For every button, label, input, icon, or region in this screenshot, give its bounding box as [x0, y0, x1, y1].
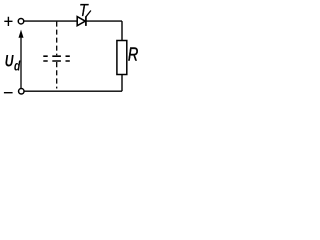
- plus polarity sign: [4, 17, 12, 26]
- svg-text:R: R: [128, 44, 138, 65]
- wire right vertical lower: [121, 75, 123, 92]
- minus polarity sign: [4, 92, 13, 94]
- svg-text:d: d: [14, 58, 21, 74]
- capacitor dashed vertical upper: [56, 22, 58, 56]
- svg-text:U: U: [5, 53, 14, 71]
- wire bottom horizontal: [24, 90, 122, 92]
- resistor R box: [117, 41, 127, 75]
- wire top horizontal: [24, 20, 122, 22]
- svg-text:T: T: [79, 0, 89, 20]
- thyristor T triangle: [77, 17, 85, 26]
- voltage arrow Ud shaft: [20, 38, 22, 89]
- voltage arrow Ud head: [19, 30, 24, 38]
- wire right vertical upper: [121, 21, 123, 40]
- capacitor bottom plate dashed: [43, 60, 70, 62]
- thyristor T cathode bar: [85, 16, 87, 26]
- top terminal node: [18, 18, 24, 24]
- bottom terminal node: [19, 89, 25, 95]
- thyristor T gate lead: [86, 11, 91, 17]
- capacitor dashed vertical lower: [56, 62, 58, 89]
- capacitor top plate dashed: [43, 55, 70, 57]
